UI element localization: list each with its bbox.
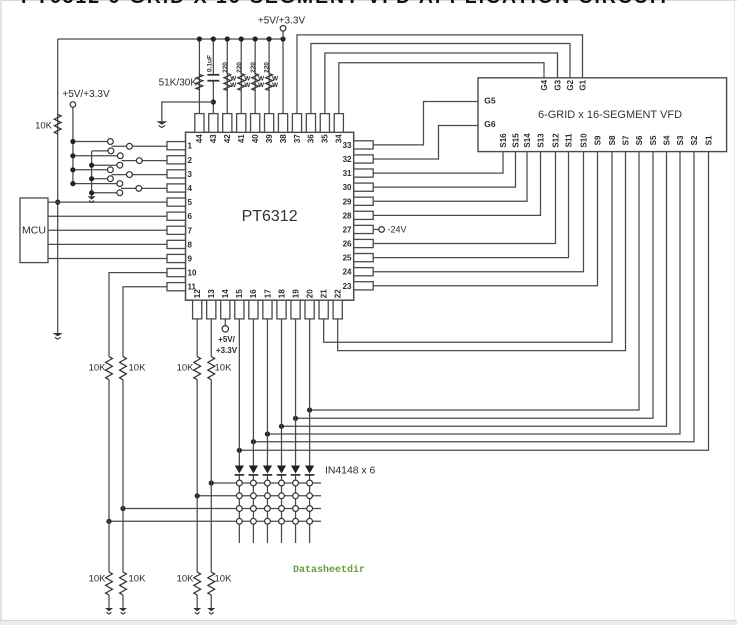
pin 26 (right) [354, 239, 374, 247]
node rail-pin5 junction [55, 200, 60, 205]
pin 10 (left) [167, 269, 186, 277]
pin 16 (bottom) [249, 300, 258, 319]
svg-text:30: 30 [343, 183, 352, 192]
svg-text:S7: S7 [621, 135, 630, 145]
pin 23 (right) [354, 282, 374, 290]
pin 6 (left) [167, 212, 186, 220]
wire column B to ground [122, 595, 124, 608]
node rail junction 43 [211, 36, 216, 41]
svg-text:5: 5 [188, 198, 193, 207]
pin 2 (left) [167, 156, 186, 164]
bottom scrollbar track [0, 620, 737, 625]
svg-text:15: 15 [235, 289, 244, 298]
switch key 7 (pin 4) [73, 183, 117, 185]
MCU box [20, 198, 48, 263]
svg-text:9: 9 [188, 255, 193, 264]
svg-text:G3: G3 [553, 79, 562, 90]
power terminal +5V/+3.3V pin 14 [224, 319, 226, 326]
ground column A [105, 608, 113, 611]
wire column A middle [108, 380, 110, 572]
wire S8 to pin 21 [324, 152, 612, 343]
svg-text:220: 220 [222, 62, 229, 73]
svg-text:W: W [272, 82, 278, 89]
wire top column pin 40 [254, 39, 256, 114]
svg-text:G5: G5 [484, 95, 496, 105]
svg-text:31: 31 [343, 169, 352, 178]
svg-text:26: 26 [343, 240, 352, 249]
wire pin11 to column B [123, 287, 167, 357]
switch key 2 (pin 1) [92, 150, 108, 152]
pin 3 (left) [167, 170, 186, 178]
svg-text:11: 11 [188, 283, 197, 292]
pin 4 (left) [167, 184, 186, 192]
pin 38 (top) [278, 114, 287, 133]
IC U1 PT6312 body [186, 132, 354, 300]
resistor 220 #2 [238, 73, 245, 90]
svg-text:10K: 10K [215, 363, 233, 374]
switch key 1 (pin 1) [73, 141, 108, 143]
pin 17 (bottom) [263, 300, 272, 319]
svg-text:20: 20 [305, 289, 314, 298]
power terminal +5V/+3.3V top [282, 31, 284, 39]
svg-text:51K/30K: 51K/30K [159, 78, 198, 89]
pin 29 (right) [354, 197, 374, 205]
right page edge [734, 0, 735, 625]
wires pins 37-34 to VFD grid inputs G1-G4 [297, 35, 583, 114]
diodes IN4148 x 6 [235, 466, 244, 474]
svg-text:10K: 10K [89, 574, 107, 585]
svg-text:MCU: MCU [22, 225, 46, 237]
svg-text:IN4148 x 6: IN4148 x 6 [325, 465, 375, 476]
wire left VCC rail vertical [57, 39, 59, 333]
resistor 220 #3 [252, 73, 259, 90]
pin 18 (bottom) [277, 300, 286, 319]
svg-text:23: 23 [343, 282, 352, 291]
node rail junction 40 [253, 36, 258, 41]
pin 31 (right) [354, 169, 374, 177]
wire column D from pin 13 [210, 319, 212, 357]
wire column A to ground [108, 595, 110, 608]
node rail junction 41 [239, 36, 244, 41]
svg-text:S13: S13 [536, 133, 545, 148]
wire top column pin 44 [198, 39, 200, 114]
resistor R1 51K/30K [196, 74, 203, 89]
pin 13 (bottom) [207, 300, 216, 319]
pin 28 (right) [354, 211, 374, 219]
wires diode columns from pins 15-20 [238, 319, 240, 466]
svg-text:4: 4 [188, 184, 193, 193]
resistor 10K column A upper [106, 357, 113, 380]
node capacitor-ground junction [211, 99, 216, 104]
svg-text:10K: 10K [89, 363, 107, 374]
key matrix junction dots [209, 480, 214, 485]
pin 39 (top) [265, 114, 274, 133]
svg-text:37: 37 [293, 134, 302, 143]
svg-text:+3.3V: +3.3V [216, 346, 238, 355]
pin 14 (bottom) [221, 300, 230, 319]
resistor 10K column C lower [194, 572, 201, 595]
title (clipped at top) [21, 0, 737, 8]
svg-text:41: 41 [237, 134, 246, 143]
svg-text:33: 33 [343, 141, 352, 150]
resistor 220 #1 [224, 73, 231, 90]
key matrix row lines [211, 482, 321, 484]
pin 34 (top) [334, 114, 343, 133]
resistor 10K column D lower [208, 572, 215, 595]
ground left rail [53, 333, 63, 336]
resistor 10K column D upper [208, 357, 215, 380]
svg-text:Datasheetdir: Datasheetdir [293, 564, 365, 576]
switch key 8 (pin 4) [92, 192, 117, 194]
resistor 10K column A lower [106, 572, 113, 595]
svg-text:10K: 10K [177, 574, 195, 585]
pin 32 (right) [354, 155, 374, 163]
resistor 220 #4 [266, 73, 273, 90]
svg-text:18: 18 [277, 289, 286, 298]
wire pin32 to G6 [373, 126, 478, 159]
pin 12 (bottom) [193, 300, 202, 319]
wires S16-S9 to pins 31-23 [373, 152, 503, 173]
ground column C [193, 608, 201, 611]
wire column B middle [122, 380, 124, 572]
svg-text:+5V/: +5V/ [218, 335, 235, 344]
svg-text:10K: 10K [129, 574, 147, 585]
svg-text:43: 43 [209, 134, 218, 143]
svg-text:220: 220 [236, 62, 243, 73]
svg-text:25: 25 [343, 254, 352, 263]
svg-text:35: 35 [321, 134, 330, 143]
svg-text:10K: 10K [215, 574, 233, 585]
wire top column pin 42 [226, 39, 228, 114]
wire pin33 to G5 [373, 102, 478, 145]
pin 37 (top) [292, 114, 301, 133]
svg-text:S10: S10 [579, 133, 588, 148]
pin 22 (bottom) [333, 300, 342, 319]
resistor 10K column B lower [120, 572, 127, 595]
wire top column pin 43 [212, 39, 214, 114]
pin 25 (right) [354, 254, 374, 262]
svg-text:36: 36 [307, 134, 316, 143]
svg-text:S4: S4 [662, 135, 671, 145]
svg-text:+5V/+3.3V: +5V/+3.3V [258, 16, 306, 27]
svg-text:1: 1 [188, 142, 193, 151]
svg-text:24: 24 [343, 268, 352, 277]
svg-text:-24V: -24V [388, 225, 407, 235]
pin 19 (bottom) [291, 300, 300, 319]
svg-text:10: 10 [188, 269, 197, 278]
pin 40 (top) [251, 114, 260, 133]
svg-text:S6: S6 [635, 135, 644, 145]
ground column D [207, 608, 215, 611]
svg-text:17: 17 [263, 289, 272, 298]
svg-text:10K: 10K [177, 363, 195, 374]
svg-text:S3: S3 [676, 135, 685, 145]
terminal -24V pin 27 [373, 228, 379, 230]
svg-text:19: 19 [291, 289, 300, 298]
wire +5V top rail [58, 38, 283, 40]
svg-text:W: W [244, 82, 250, 89]
switch key 5 (pin 3) [73, 169, 108, 171]
svg-text:38: 38 [279, 134, 288, 143]
svg-text:S15: S15 [511, 133, 520, 148]
pin 1 (left) [167, 142, 186, 150]
ground column B [119, 608, 127, 611]
svg-text:S8: S8 [608, 135, 617, 145]
svg-text:S12: S12 [551, 133, 560, 148]
resistor 10K column B upper [120, 357, 127, 380]
pin 30 (right) [354, 183, 374, 191]
svg-text:28: 28 [343, 211, 352, 220]
svg-text:10K: 10K [35, 120, 53, 131]
pin 33 (right) [354, 141, 374, 149]
node rail junction 38 [280, 36, 285, 41]
pin 15 (bottom) [235, 300, 244, 319]
svg-text:G6: G6 [484, 119, 496, 129]
svg-text:W: W [230, 82, 236, 89]
wire capacitor to ground [162, 102, 214, 121]
svg-text:G1: G1 [578, 79, 587, 90]
pin 35 (top) [320, 114, 329, 133]
svg-text:0.1uF: 0.1uF [206, 55, 213, 72]
VFD display box [478, 78, 727, 152]
node rail junction 39 [267, 36, 272, 41]
pin 9 (left) [167, 254, 186, 262]
pin 11 (left) [167, 283, 186, 291]
left page edge [0, 0, 2, 625]
pin 42 (top) [223, 114, 232, 133]
svg-text:7: 7 [188, 226, 193, 235]
svg-text:21: 21 [319, 289, 328, 298]
svg-text:G4: G4 [540, 79, 549, 90]
pin 21 (bottom) [319, 300, 328, 319]
pin 5 (left) [167, 198, 186, 206]
svg-text:2: 2 [188, 156, 193, 165]
wire top column pin 41 [240, 39, 242, 114]
svg-text:13: 13 [207, 289, 216, 298]
wire column C from pin 12 [196, 319, 198, 357]
pin 24 (right) [354, 268, 374, 276]
wire key bus 1 [72, 107, 74, 184]
svg-text:16: 16 [249, 289, 258, 298]
wire top column pin 38 [282, 39, 284, 114]
wire column C to ground [196, 595, 198, 608]
pin 43 (top) [209, 114, 218, 133]
svg-text:220: 220 [264, 62, 271, 73]
svg-text:6: 6 [188, 212, 193, 221]
ground capacitor [156, 121, 167, 124]
pin 44 (top) [195, 114, 204, 133]
top page edge [0, 0, 737, 1]
resistor 10K column C upper [194, 357, 201, 380]
pin 41 (top) [237, 114, 246, 133]
svg-text:S11: S11 [564, 133, 573, 147]
svg-text:220: 220 [250, 62, 257, 73]
key matrix contact circles [236, 480, 242, 486]
switch key 4 (pin 2) [92, 164, 117, 166]
svg-text:S9: S9 [593, 135, 602, 145]
switch key 6 (pin 3) [92, 178, 108, 180]
svg-text:S16: S16 [499, 133, 508, 148]
svg-text:PT6312: PT6312 [242, 208, 298, 225]
wires MCU to pins 5-9 [48, 201, 167, 203]
pin 8 (left) [167, 240, 186, 248]
pin 7 (left) [167, 226, 186, 234]
pin 20 (bottom) [305, 300, 314, 319]
svg-text:S14: S14 [523, 133, 532, 148]
svg-text:3: 3 [188, 170, 193, 179]
capacitor C1 0.1uF [207, 74, 219, 76]
svg-text:S5: S5 [649, 135, 658, 145]
node rail junction 44 [197, 36, 202, 41]
wire S7 to pin 22 [338, 152, 626, 351]
svg-text:S1: S1 [704, 135, 713, 145]
resistor 10K left rail [54, 114, 61, 134]
svg-text:40: 40 [251, 134, 260, 143]
svg-text:14: 14 [221, 289, 230, 298]
svg-text:G2: G2 [566, 79, 575, 90]
pin 27 (right) [354, 225, 374, 233]
svg-text:10K: 10K [129, 363, 147, 374]
svg-text:+5V/+3.3V: +5V/+3.3V [62, 89, 110, 100]
switch key 3 (pin 2) [73, 155, 118, 157]
wire pin10 to column A [109, 273, 167, 357]
svg-text:22: 22 [334, 289, 343, 298]
node rail junction 42 [225, 36, 230, 41]
wire top column pin 39 [268, 39, 270, 114]
pin 36 (top) [306, 114, 315, 133]
svg-text:8: 8 [188, 240, 193, 249]
svg-text:27: 27 [343, 225, 352, 234]
wires S6-S1 down to diode columns [310, 152, 639, 410]
wire key bus 2 [91, 151, 93, 196]
svg-text:44: 44 [195, 134, 204, 143]
svg-text:32: 32 [343, 155, 352, 164]
svg-text:42: 42 [223, 134, 232, 143]
svg-text:39: 39 [265, 134, 274, 143]
svg-text:29: 29 [343, 197, 352, 206]
svg-text:6-GRID x 16-SEGMENT VFD: 6-GRID x 16-SEGMENT VFD [538, 109, 682, 121]
svg-text:W: W [258, 82, 264, 89]
ground key bus 2 [88, 196, 96, 199]
svg-text:S2: S2 [690, 135, 699, 145]
wire column D to ground [210, 595, 212, 608]
